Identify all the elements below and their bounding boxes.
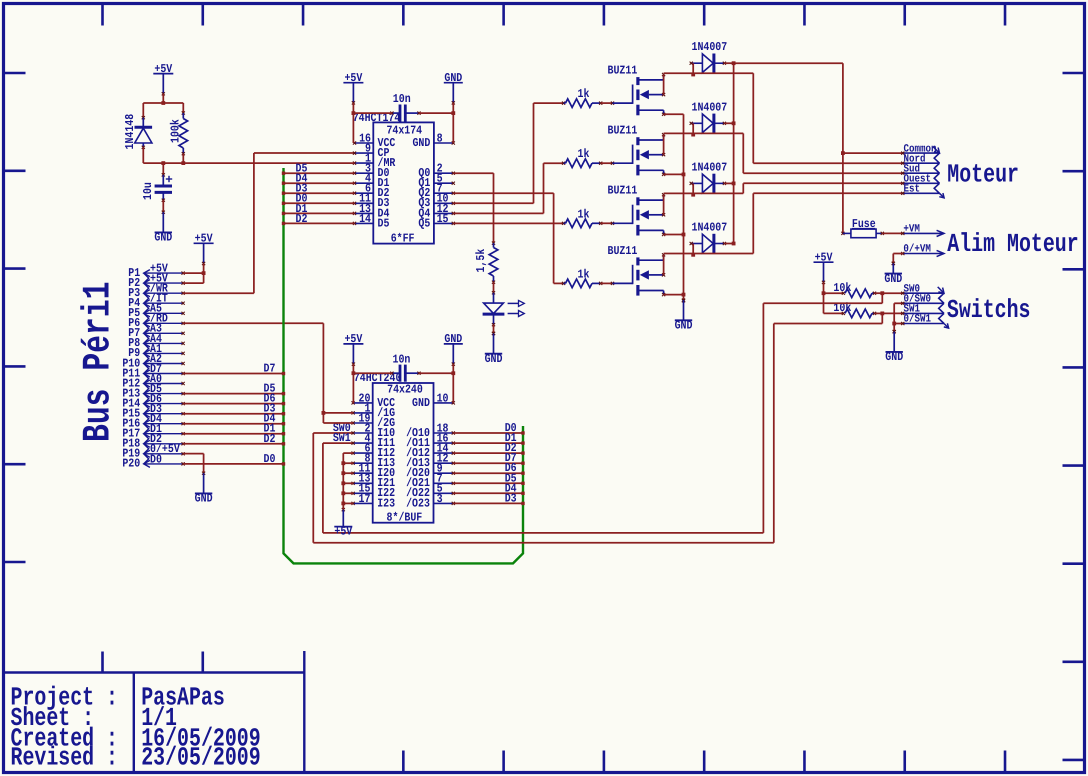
svg-text:GND: GND [412, 396, 430, 410]
wire I12-I23 to +5V rail [341, 453, 353, 505]
svg-text:GND: GND [412, 136, 430, 150]
svg-text:1N4007: 1N4007 [692, 40, 728, 54]
wire T2 drain to Sud [664, 133, 903, 173]
wire pin2 loop to SW1 node [313, 324, 774, 543]
label Moteur [947, 160, 1019, 190]
supply +5V below U2 [334, 508, 353, 539]
capacitor C10u [155, 163, 173, 212]
diode D4 1N4007 [690, 234, 726, 253]
svg-text:6*FF: 6*FF [391, 231, 415, 245]
svg-text:3: 3 [437, 492, 443, 506]
labels U1 D input nets [296, 162, 308, 226]
svg-text:BUZ11: BUZ11 [608, 184, 638, 198]
wire Q3 to row1 [453, 103, 563, 203]
wires P data pins to bus [183, 372, 285, 466]
wire Q4 to row2 [453, 163, 563, 213]
svg-text:BUZ11: BUZ11 [608, 64, 638, 78]
svg-text:D0: D0 [264, 452, 276, 466]
label 10k SW1 [833, 301, 851, 315]
resistor R1k row4 [562, 279, 602, 288]
supply +5V U1 [343, 71, 363, 105]
svg-text:D7: D7 [264, 362, 276, 376]
svg-text:8: 8 [437, 131, 443, 145]
svg-text:Switchs: Switchs [947, 295, 1031, 325]
wire 1k to gate row2 [601, 162, 633, 165]
wire 0/+5V to ground [183, 454, 204, 474]
wire T1 drain to Nord [664, 73, 903, 163]
svg-text:BUZ11: BUZ11 [608, 244, 638, 258]
svg-text:10u: 10u [141, 182, 155, 200]
label BUZ11 Q3 [608, 184, 638, 198]
svg-text:1N4007: 1N4007 [692, 221, 728, 235]
wire cathode D1 to rail [724, 61, 735, 65]
label BUZ11 Q4 [608, 244, 638, 258]
svg-text:15: 15 [437, 212, 449, 226]
supply +5V switches [814, 251, 834, 285]
wire SW0 node to pin and loop [763, 293, 902, 303]
wire /MR net [183, 162, 354, 164]
svg-text:D5: D5 [378, 216, 390, 230]
wire /RD to /1G /2G [183, 323, 323, 413]
data bus D0-D7 green [284, 168, 524, 563]
resistor R1k row1 [562, 99, 602, 108]
wires +5V cap GND to U2 power pins [352, 364, 456, 403]
U2 right pins [406, 391, 455, 510]
label 74HCT240 [354, 371, 402, 385]
wire 0/SW0 0/SW1 to ground [892, 303, 903, 333]
labels Moteur pin names [904, 143, 937, 195]
svg-text:23/05/2009: 23/05/2009 [141, 743, 261, 773]
ground GND U1 top [444, 71, 463, 105]
label 1N4007 D4 [692, 221, 728, 235]
wire anode D4 to drain [691, 244, 695, 257]
wires bus to U1 D inputs [282, 172, 355, 226]
wire anode D1 to drain [691, 63, 695, 76]
wires U2 outputs to bus [453, 431, 524, 505]
label 10n U2 [393, 352, 411, 366]
label Fuse [852, 217, 876, 231]
label 6*FF [391, 231, 415, 245]
wire Q5 to row3 [453, 222, 563, 224]
wire 1,5k to LED [492, 282, 495, 294]
svg-text:1N4148: 1N4148 [123, 114, 137, 150]
wire +VM rail to fuse [734, 63, 845, 233]
svg-text:0/SW1: 0/SW1 [904, 314, 932, 326]
resistor R6 1,5k [489, 242, 498, 284]
title block box [5, 651, 306, 771]
LED LED1 [483, 293, 525, 327]
svg-text:/O23: /O23 [406, 496, 430, 510]
wires +5V cap GND to U1 power pins [352, 103, 456, 143]
frame right tick marks [1063, 73, 1084, 760]
svg-text:8*/BUF: 8*/BUF [387, 510, 423, 524]
wire LED to ground [492, 325, 495, 335]
connector Alim +VM pin [901, 230, 944, 236]
ground below LED [485, 332, 503, 366]
label 74x174 [386, 124, 422, 138]
svg-text:Bus Péri1: Bus Péri1 [76, 282, 120, 443]
wire fuse to +VM pin [882, 232, 903, 234]
frame top tick marks [103, 5, 1006, 26]
connector P signal labels [150, 262, 180, 467]
label +VM [903, 224, 920, 236]
label 1k row2 [578, 147, 590, 161]
label 74HCT174 [353, 111, 401, 125]
svg-text:10n: 10n [393, 352, 411, 366]
wire T3 drain to Ouest [664, 183, 903, 193]
transistor Q1 BUZ11 [633, 73, 666, 116]
connector Moteur pins [901, 147, 944, 198]
wire T4 drain to Est [664, 193, 903, 253]
svg-text:1N4007: 1N4007 [692, 160, 728, 174]
wire anode D2 to drain [691, 123, 695, 136]
ground GND U2 top [444, 332, 463, 366]
wire cathode D3 to rail [724, 182, 735, 186]
frame bottom tick marks [403, 751, 1005, 772]
IC U2 74HCT240 box [373, 383, 434, 523]
diode D3 1N4007 [690, 174, 726, 193]
label 1N4007 D1 [692, 40, 728, 54]
label 1N4148 [123, 114, 137, 150]
svg-text:Q5: Q5 [418, 216, 430, 230]
svg-text:+5V: +5V [334, 525, 353, 539]
svg-text:1,5k: 1,5k [474, 249, 488, 273]
transistor Q4 BUZ11 [633, 253, 666, 296]
labels Switchs pin names [904, 283, 932, 325]
svg-text:Est: Est [904, 184, 921, 196]
connector P1-P20 pin lines and chevrons [144, 270, 185, 468]
capacitor C2 10n [390, 365, 420, 382]
wire 0/+VM to ground [892, 254, 903, 266]
label 10u [141, 182, 155, 200]
label 1N4007 D3 [692, 160, 728, 174]
resistor R1k row2 [562, 159, 602, 168]
labels U2 output nets [505, 421, 517, 505]
svg-text:SW1: SW1 [333, 431, 351, 445]
wire +5V to pullups [822, 282, 826, 313]
resistor R1k row3 [562, 219, 602, 228]
wire anode D3 to drain [691, 183, 695, 196]
diode D1 1N4148 [135, 116, 153, 163]
label 100k [168, 119, 182, 143]
wire drain-body tie Q3 [663, 195, 665, 215]
svg-text:100k: 100k [168, 119, 182, 143]
connector P pin numbers [122, 266, 140, 471]
ground below 10u [154, 211, 172, 245]
label 10n U1 [393, 92, 411, 106]
svg-text:D0: D0 [150, 452, 162, 466]
svg-text:14: 14 [359, 212, 371, 226]
wire drain-body tie Q2 [663, 135, 665, 155]
svg-text:GND: GND [154, 231, 172, 245]
connector Switchs pins [901, 287, 948, 328]
wire 1k to gate row1 [601, 102, 633, 105]
label 74x240 [387, 383, 423, 397]
transistor Q2 BUZ11 [633, 133, 666, 176]
svg-text:GND: GND [485, 352, 503, 366]
svg-text:BUZ11: BUZ11 [608, 124, 638, 138]
svg-text:1N4007: 1N4007 [692, 100, 728, 114]
svg-text:+VM: +VM [903, 224, 920, 236]
svg-text:GND: GND [195, 492, 213, 506]
ground below 0/+VM [884, 262, 902, 286]
connector Alim 0/+VM pin [901, 250, 944, 256]
svg-text:GND: GND [675, 319, 693, 333]
wire drain-body tie Q1 [663, 75, 665, 95]
svg-text:I23: I23 [377, 496, 395, 510]
wire pin4 loop to SW0 node [323, 303, 764, 533]
labels SW0 SW1 at U2 inputs [333, 421, 351, 445]
ground below Q4 [675, 299, 693, 333]
transistor Q3 BUZ11 [633, 193, 666, 236]
svg-text:10n: 10n [393, 92, 411, 106]
U2 left pins [352, 391, 396, 510]
label Switchs [947, 295, 1031, 325]
svg-text:1k: 1k [578, 147, 590, 161]
diode D2 1N4007 [690, 114, 726, 133]
U1 left pins [353, 131, 396, 230]
svg-text:Alim Moteur: Alim Moteur [947, 229, 1078, 259]
wire cathode D4 to rail [724, 242, 735, 246]
capacitor C1 10n [390, 105, 420, 122]
fuse F1 [841, 229, 884, 238]
svg-text:1k: 1k [578, 267, 590, 281]
ground below switches [885, 330, 903, 364]
wire /WR to CP [183, 153, 354, 293]
title block values [141, 682, 261, 772]
title block labels [11, 682, 119, 772]
wire /1G /2G tie [322, 411, 354, 423]
wire rail to +5V below [342, 503, 344, 509]
svg-text:1k: 1k [578, 207, 590, 221]
label 10k SW0 [833, 281, 851, 295]
svg-text:GND: GND [884, 272, 902, 286]
svg-text:0/+VM: 0/+VM [903, 244, 931, 256]
svg-text:GND: GND [885, 350, 903, 364]
wire drain-body tie Q4 [663, 255, 665, 275]
label 1,5k [474, 249, 488, 273]
wire +5V to P1 P2 [183, 264, 205, 284]
supply +5V reset [153, 62, 173, 96]
label 0/+VM [903, 244, 931, 256]
label 1k row3 [578, 207, 590, 221]
wire Q2 to row4 [453, 193, 563, 283]
wire SW1 node to pin and loop [774, 313, 903, 323]
frame left tick marks [5, 73, 26, 562]
label Bus Peri1 [76, 282, 120, 443]
label 1k row4 [578, 267, 590, 281]
label 8*/BUF [387, 510, 423, 524]
wire cathode D2 to rail [724, 121, 735, 125]
wire 1k to gate row4 [601, 282, 633, 285]
wire Q0 to LED resistor [453, 173, 493, 243]
resistor R10k SW0 [824, 289, 885, 298]
IC U1 74HCT174 box [373, 122, 434, 243]
resistor R10k SW1 [824, 309, 885, 318]
wire Common to connector [843, 152, 903, 154]
svg-text:Moteur: Moteur [947, 160, 1019, 190]
label BUZ11 Q1 [608, 64, 638, 78]
svg-text:Revised :: Revised : [11, 743, 119, 773]
node /MR reset junctions [143, 161, 185, 165]
labels data nets at bus [264, 362, 276, 466]
supply +5V U2 [343, 332, 363, 366]
wire diode cathode rail [733, 63, 735, 243]
svg-text:10k: 10k [833, 281, 851, 295]
svg-text:P20: P20 [122, 457, 140, 471]
ground below P19 [195, 472, 213, 506]
wire source rail to ground [664, 114, 686, 302]
diode D1 1N4007 [690, 54, 726, 73]
resistor R1 100k [179, 111, 188, 163]
svg-text:74x240: 74x240 [387, 383, 423, 397]
wire 1k to gate row3 [601, 222, 633, 225]
label BUZ11 Q2 [608, 124, 638, 138]
svg-text:10: 10 [437, 391, 449, 405]
svg-text:17: 17 [359, 492, 371, 506]
U1 right pins [412, 131, 454, 230]
label Alim Moteur [947, 229, 1078, 259]
svg-text:1k: 1k [578, 87, 590, 101]
svg-text:D2: D2 [264, 432, 276, 446]
label 1k row1 [578, 87, 590, 101]
svg-text:D2: D2 [296, 212, 308, 226]
supply +5V connector [194, 232, 214, 266]
svg-text:D3: D3 [505, 491, 517, 505]
wire +5V to reset node [143, 94, 183, 118]
label 1N4007 D2 [692, 100, 728, 114]
